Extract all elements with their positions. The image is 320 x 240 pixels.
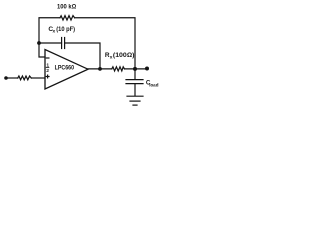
svg-text:(100Ω): (100Ω): [113, 52, 135, 59]
wire Cx left lead: [39, 42, 62, 44]
label Cx (10 pF): [48, 26, 75, 34]
resistor R1 100 kOhm zigzag: [60, 16, 75, 20]
capacitor Cx plates: [62, 38, 65, 49]
capacitor Cload plates: [126, 80, 143, 84]
resistor R2 input zigzag: [18, 76, 32, 80]
op-amp minus input sign: [46, 57, 49, 59]
svg-text:100 kΩ: 100 kΩ: [57, 4, 76, 11]
node output junction dot: [98, 67, 102, 71]
wire R2 to non-inverting input: [31, 77, 45, 79]
wire Cload to ground: [134, 84, 136, 96]
wire input lead: [6, 77, 18, 79]
svg-text:x: x: [53, 29, 56, 34]
op-amp U1 triangle: [45, 50, 88, 90]
wire op-amp output: [88, 68, 112, 70]
wire Rx to output terminal: [125, 68, 148, 70]
svg-text:2: 2: [46, 68, 49, 74]
node load junction dot: [133, 67, 137, 71]
input terminal dot: [4, 76, 8, 80]
svg-text:LPC660: LPC660: [55, 64, 75, 71]
wire inverting input to top-left corner: [39, 18, 60, 57]
wire Cx right lead down to output node: [65, 43, 100, 69]
resistor Rx 100 Ohm zigzag: [112, 67, 125, 71]
svg-text:(10 pF): (10 pF): [56, 26, 75, 33]
ground symbol: [127, 96, 143, 105]
wire R1 right lead across top and down right side: [75, 18, 135, 69]
op-amp half designator 1/2: [46, 63, 49, 75]
output terminal dot: [145, 67, 149, 71]
label Rx (100 Ohm): [105, 52, 135, 60]
node junction dot at inverting feedback tap: [37, 41, 41, 45]
op-amp plus input sign: [46, 75, 49, 78]
svg-text:load: load: [149, 82, 159, 87]
label Cload: [146, 80, 159, 88]
wire down to Cload: [134, 69, 136, 79]
